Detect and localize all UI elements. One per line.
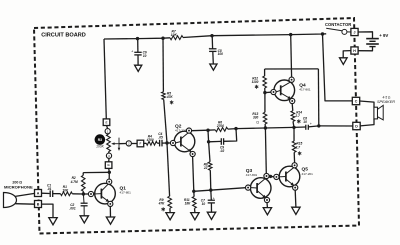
svg-text:47K: 47K xyxy=(166,95,174,99)
wire Q4 emitter xyxy=(291,104,294,111)
resistor R15 xyxy=(292,141,296,152)
capacitor C8 xyxy=(305,125,307,130)
wire node to Q1 base xyxy=(83,193,88,195)
wire mic to A xyxy=(15,193,34,196)
potentiometer R3 knob xyxy=(95,134,106,145)
pin 1 xyxy=(105,129,110,134)
svg-text:417-801: 417-801 xyxy=(120,191,132,195)
svg-text:22: 22 xyxy=(203,166,208,170)
wire R1 to base node xyxy=(72,193,83,195)
svg-text:.001: .001 xyxy=(69,206,75,210)
svg-text:H: H xyxy=(353,49,356,53)
asterisk R12 xyxy=(255,85,258,89)
resistor R14 xyxy=(291,111,295,122)
svg-text:1100: 1100 xyxy=(252,80,259,84)
svg-text:SPEAKER: SPEAKER xyxy=(377,100,395,104)
svg-text:B: B xyxy=(37,202,40,206)
wire pin3 to G xyxy=(108,158,110,162)
ground Q1 xyxy=(106,217,114,224)
wire C5 top xyxy=(211,36,213,49)
wire bootstrap left down xyxy=(264,69,266,76)
wire to terminal D xyxy=(319,125,353,127)
node Q2 base xyxy=(165,141,168,144)
wire E to pin 1 xyxy=(107,126,108,129)
resistor R7 xyxy=(170,36,183,40)
svg-text:2.7: 2.7 xyxy=(295,145,301,149)
ground C2 xyxy=(80,216,88,223)
capacitor C4 xyxy=(159,140,161,147)
resistor R9 xyxy=(168,196,172,208)
resistor R13 xyxy=(263,112,267,124)
wire R6 right xyxy=(228,128,236,131)
terminal square H xyxy=(351,47,358,54)
ground C5 xyxy=(210,64,217,70)
ground mic xyxy=(49,218,57,225)
ground battery xyxy=(340,58,348,65)
capacitor C7 xyxy=(208,199,215,201)
svg-text:2.7: 2.7 xyxy=(294,114,300,118)
ground Q3 xyxy=(263,208,271,215)
resistor R4 xyxy=(146,141,157,145)
svg-text:R3: R3 xyxy=(98,138,102,142)
wire C4 to node xyxy=(162,142,167,144)
terminal square F xyxy=(137,140,144,147)
ground R9 xyxy=(166,213,174,220)
wire R14 to output node xyxy=(293,121,294,127)
svg-text:10K: 10K xyxy=(62,189,69,193)
node Q4 base xyxy=(263,91,266,94)
svg-text:C: C xyxy=(355,99,358,103)
resistor R6 xyxy=(215,127,228,131)
wiper arrow of R3 xyxy=(113,143,119,145)
node rail-Q4 xyxy=(289,33,292,36)
wire C7 bottom xyxy=(210,203,212,212)
wire R4 to C4 xyxy=(157,142,159,144)
transistor Q2 xyxy=(174,131,195,152)
svg-text:2700: 2700 xyxy=(216,124,224,128)
battery BT1 +9V xyxy=(366,38,379,40)
wire node to R9 xyxy=(167,143,170,196)
wire G to Q1 collector node xyxy=(108,168,111,172)
node R13 bottom xyxy=(264,126,267,129)
node Q3 collector / Q5 base xyxy=(269,175,272,178)
svg-text:CONTACTOR: CONTACTOR xyxy=(325,22,351,27)
node rail-C6 xyxy=(136,37,139,40)
transistor Q3 xyxy=(250,178,271,199)
svg-text:10: 10 xyxy=(202,202,206,206)
wire D to speaker xyxy=(360,119,374,126)
node Q1 base xyxy=(82,192,85,195)
asterisk R5 xyxy=(170,100,173,104)
node Q2 emitter xyxy=(192,190,195,193)
terminal square C xyxy=(352,97,359,104)
circuit board dashed outline xyxy=(34,18,359,234)
wire node to Q1 collector xyxy=(108,172,110,179)
wire F to R4 xyxy=(144,142,147,144)
svg-text:10K: 10K xyxy=(171,33,178,37)
wire C9 right xyxy=(224,129,237,142)
wire Q2 collector xyxy=(192,129,208,132)
wire output to C8 xyxy=(294,126,306,128)
ground Q5 xyxy=(292,207,300,214)
resistor R2 xyxy=(81,175,85,191)
terminal square D xyxy=(353,122,360,129)
terminal square J xyxy=(351,28,358,35)
svg-text:100K: 100K xyxy=(96,145,105,149)
node C8-bootstrap xyxy=(317,124,320,127)
capacitor C5 xyxy=(209,48,216,50)
asterisk R15 xyxy=(298,151,301,155)
wire Q4 base xyxy=(265,91,271,93)
svg-text:4.7M: 4.7M xyxy=(70,180,78,184)
svg-text:F: F xyxy=(139,142,141,146)
node R6 right xyxy=(234,127,237,130)
wire H to ground xyxy=(343,51,351,58)
wire R2 to base node xyxy=(82,191,84,194)
wire node to R6 xyxy=(208,129,215,131)
node rail-C5 xyxy=(210,34,213,37)
wire Q2 emitter to Q3 base xyxy=(194,188,246,192)
svg-text:+ 9V: + 9V xyxy=(379,33,388,38)
svg-text:J: J xyxy=(354,30,356,34)
resistor R5 xyxy=(162,92,166,100)
wire R3 to pin 3 xyxy=(108,152,110,154)
wire R9 to ground xyxy=(169,208,171,212)
resistor R1 xyxy=(61,192,73,196)
svg-text:417-801: 417-801 xyxy=(246,173,258,177)
svg-text:Ω: Ω xyxy=(256,121,259,125)
wire R5 top xyxy=(162,38,164,92)
wire R8 to emitter wire xyxy=(209,170,212,190)
wire wiper to pin 2 xyxy=(119,143,126,145)
wire R2 top stub xyxy=(82,173,84,176)
wire Q4 collector to rail xyxy=(290,35,293,78)
contactor switch xyxy=(326,28,342,31)
wire R12 to Q4 base node xyxy=(264,88,266,93)
terminal square B xyxy=(35,201,42,208)
wire Q5 collector xyxy=(293,152,295,162)
svg-text:CIRCUIT BOARD: CIRCUIT BOARD xyxy=(41,33,86,39)
wire pin2 to F xyxy=(131,143,137,145)
wire mic to B xyxy=(15,203,34,206)
wire C9 branch left xyxy=(207,130,210,142)
wire Q4 base node to R13 xyxy=(264,93,266,113)
wire Q2em to R11 xyxy=(193,191,195,196)
svg-text:10: 10 xyxy=(143,54,147,58)
wire Q3 emitter xyxy=(266,203,268,208)
svg-text:A: A xyxy=(37,191,40,195)
asterisk R14 xyxy=(297,119,300,123)
terminal square G xyxy=(105,162,112,169)
node rail-R5 xyxy=(161,37,164,40)
ground R11 xyxy=(191,213,199,220)
capacitor C1 xyxy=(49,190,51,197)
wire C to speaker xyxy=(360,101,374,107)
wire Q2 emitter xyxy=(193,157,194,192)
wire R13 to main wire xyxy=(264,124,266,128)
wire B to ground xyxy=(42,204,54,218)
svg-text:.01: .01 xyxy=(47,187,52,191)
svg-text:MICROPHONE: MICROPHONE xyxy=(4,185,33,190)
node rail-speaker feed xyxy=(321,32,324,35)
wire A to C1 xyxy=(42,192,50,194)
wire bootstrap top xyxy=(265,68,319,70)
node R8-C7 xyxy=(209,188,212,191)
potentiometer R3 element xyxy=(107,134,111,151)
wire C6 bottom xyxy=(137,55,139,65)
node output xyxy=(292,126,295,129)
wire C1 to R1 xyxy=(53,193,61,195)
svg-text:4-5 Ω: 4-5 Ω xyxy=(383,95,391,99)
resistor R11 xyxy=(192,197,196,209)
svg-text:100: 100 xyxy=(218,52,224,56)
wire C9 node to R8 xyxy=(209,142,210,162)
svg-text:.05: .05 xyxy=(158,136,163,140)
svg-text:417-801: 417-801 xyxy=(299,88,311,92)
wire C8 to D line xyxy=(308,126,319,127)
svg-text:E: E xyxy=(105,120,107,124)
svg-text:.02: .02 xyxy=(220,149,225,153)
wire Q3 collector up xyxy=(264,128,267,173)
node Q1 collector xyxy=(108,171,111,174)
wire rail to E xyxy=(104,39,106,119)
wire C6 top xyxy=(137,39,139,53)
terminal square E xyxy=(103,119,110,126)
wire output line xyxy=(236,127,294,128)
ground C7 xyxy=(207,212,215,219)
wire B+ rail xyxy=(104,38,170,39)
wire B+ down to C xyxy=(323,34,353,101)
pin 2 xyxy=(126,141,131,146)
svg-text:D: D xyxy=(355,124,358,128)
wire Q3 collector to Q5 base xyxy=(269,175,274,178)
svg-text:330: 330 xyxy=(253,116,259,120)
speaker xyxy=(374,107,378,119)
capacitor C6 xyxy=(134,51,141,53)
wire collector node to R2 xyxy=(83,171,109,173)
microphone symbol xyxy=(4,193,17,208)
terminal square A xyxy=(35,190,42,197)
wire B+ rail right xyxy=(183,34,326,38)
pin 3 xyxy=(106,153,111,158)
transistor Q5 xyxy=(279,166,300,187)
wire C5 bottom xyxy=(212,51,215,64)
transistor Q4 xyxy=(274,80,295,101)
wire node to Q2 base pin xyxy=(167,142,170,144)
svg-text:4700: 4700 xyxy=(146,138,154,142)
wire pin1 to R3 xyxy=(107,133,110,136)
wire R5 to Q2 base node xyxy=(164,100,167,144)
wire R15 to output node xyxy=(293,127,295,141)
wire bootstrap up xyxy=(317,69,319,126)
ground C6 xyxy=(135,65,142,71)
wire C7 top xyxy=(210,190,213,200)
node C9 left xyxy=(207,140,210,143)
capacitor C9 xyxy=(220,138,222,145)
wire Q1 emitter xyxy=(109,207,111,218)
transistor Q1 xyxy=(95,183,116,204)
svg-text:417-201: 417-201 xyxy=(302,172,314,176)
svg-text:47K: 47K xyxy=(158,202,166,206)
wire R11 to ground xyxy=(194,208,196,212)
wire to C9 xyxy=(209,140,222,142)
wire J to battery xyxy=(358,32,372,39)
svg-text:10: 10 xyxy=(303,120,307,124)
wire Q5 emitter xyxy=(294,190,297,207)
svg-text:417-221: 417-221 xyxy=(175,129,187,133)
svg-text:18K: 18K xyxy=(185,202,192,206)
capacitor C2 xyxy=(82,194,85,203)
asterisk R9 xyxy=(162,207,165,211)
node Q2 collector xyxy=(206,129,209,132)
resistor R12 xyxy=(263,76,267,88)
wire battery to H xyxy=(358,47,372,51)
resistor R8 xyxy=(208,162,212,170)
